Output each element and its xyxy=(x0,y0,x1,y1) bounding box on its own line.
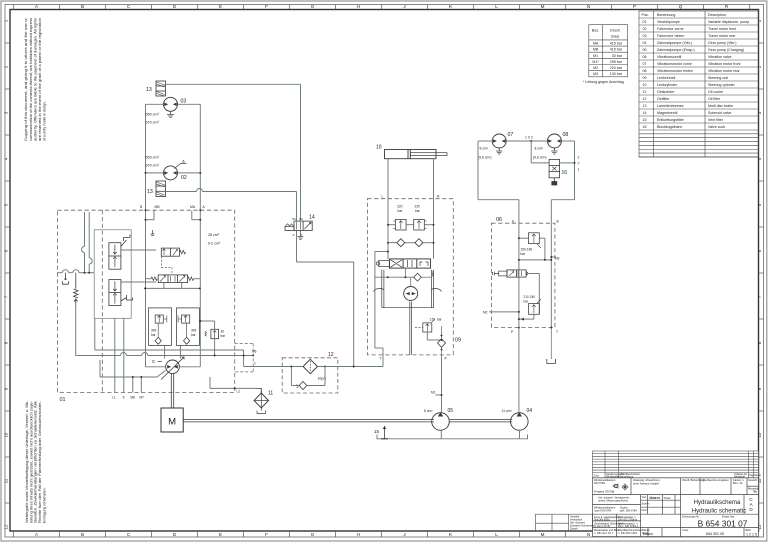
pilot valve lower pedal xyxy=(121,295,132,301)
steering 4/3 valve xyxy=(376,259,433,277)
wire brake13-top to valve14 xyxy=(166,84,301,221)
inner dashed partition xyxy=(101,210,103,392)
svg-text:08: 08 xyxy=(643,69,647,73)
svg-text:8 cm³: 8 cm³ xyxy=(535,147,544,151)
svg-text:are reserved in the event of t: are reserved in the event of the grant o… xyxy=(38,18,42,141)
svg-text:12: 12 xyxy=(4,524,9,529)
gear pump 05 (charging) xyxy=(432,412,450,430)
port labels B MB MA A xyxy=(140,205,206,209)
svg-text:Stuehr: Stuehr xyxy=(642,502,650,506)
svg-text:13: 13 xyxy=(146,87,152,93)
svg-text:09: 09 xyxy=(643,76,647,80)
check valves row xyxy=(387,239,435,247)
svg-text:DIN ISO 2768-m: DIN ISO 2768-m xyxy=(618,517,637,521)
wire case line 2 (to M6) xyxy=(76,305,255,357)
svg-text:nach DIN 6784: nach DIN 6784 xyxy=(594,509,612,513)
svg-text:unters. Muster geschuetzt: unters. Muster geschuetzt xyxy=(598,499,628,503)
svg-text:G: G xyxy=(311,532,315,537)
lever symbol xyxy=(62,273,68,285)
pilot valve upper pedal xyxy=(121,235,130,247)
svg-text:Vibrationsventil: Vibrationsventil xyxy=(657,55,682,59)
motor 07 drain xyxy=(496,148,502,154)
valve 14 port labels xyxy=(293,217,304,237)
wire to valve 16 xyxy=(531,141,575,164)
svg-text:geh. DIN 6784: geh. DIN 6784 xyxy=(620,509,637,513)
wire motor 03 cross xyxy=(146,103,201,105)
pilot outputs to main valve xyxy=(121,250,156,282)
port MB stub xyxy=(145,209,155,221)
svg-text:30 bar: 30 bar xyxy=(612,54,623,58)
svg-text:Zahnradpumpe (Einsp.): Zahnradpumpe (Einsp.) xyxy=(657,48,695,52)
lower bus under 4/3 valve xyxy=(144,283,201,290)
svg-text:220 bar: 220 bar xyxy=(610,66,623,70)
svg-text:1: 1 xyxy=(578,168,580,172)
wire L2 xyxy=(210,377,261,393)
svg-text:Hydraulic schematic: Hydraulic schematic xyxy=(692,507,747,514)
wire drain line M8 M7 xyxy=(100,360,166,393)
steering unit 09 enclosure (dashed) xyxy=(367,199,453,355)
valve 14 tank drain xyxy=(297,230,303,239)
svg-text:M6: M6 xyxy=(252,350,257,354)
block 06 mid bus xyxy=(518,259,552,261)
spring return symbol xyxy=(74,273,78,305)
vibration motor 07 xyxy=(492,134,506,148)
svg-text:Oelkuehler: Oelkuehler xyxy=(657,90,675,94)
engine shaft to gear pumps xyxy=(183,420,512,422)
svg-text:B: B xyxy=(81,4,84,9)
svg-text:Vibration motor rear: Vibration motor rear xyxy=(708,69,740,73)
M2 line xyxy=(489,311,520,313)
svg-text:T: T xyxy=(254,362,256,366)
svg-text:Urspr.: Urspr. xyxy=(682,528,689,532)
steering inner left line xyxy=(375,251,389,367)
svg-text:10: 10 xyxy=(757,432,762,437)
svg-text:M1: M1 xyxy=(431,391,436,395)
wire valve14 drain to filter line xyxy=(297,230,355,367)
copyright note (english, rotated) xyxy=(24,17,46,141)
motor 03 drain xyxy=(167,111,174,117)
svg-text:1 X 2: 1 X 2 xyxy=(525,135,533,139)
vibration valve 06 enclosure (dashed) xyxy=(491,223,555,327)
svg-text:16: 16 xyxy=(562,170,568,176)
feedback channel xyxy=(374,270,442,308)
svg-text:11: 11 xyxy=(4,478,9,483)
suction tank line xyxy=(377,430,528,439)
pressure table xyxy=(589,25,628,77)
relief outputs to pump xyxy=(165,345,181,358)
svg-text:Q: Q xyxy=(679,4,683,9)
svg-text:Travel motor front: Travel motor front xyxy=(708,27,736,31)
svg-text:28 cm³: 28 cm³ xyxy=(208,233,220,237)
filter element xyxy=(303,359,317,373)
wire motors loop left xyxy=(478,141,519,223)
svg-text:11 cm³: 11 cm³ xyxy=(502,409,513,413)
svg-text:11: 11 xyxy=(643,90,647,94)
svg-text:08: 08 xyxy=(563,132,569,138)
svg-text:L2: L2 xyxy=(237,389,241,393)
svg-text:N: N xyxy=(587,4,590,9)
svg-text:670 cm³: 670 cm³ xyxy=(146,121,160,125)
svg-text:01.02.99: 01.02.99 xyxy=(649,496,661,500)
wire brake13-bottom to valve14 xyxy=(166,189,297,222)
block 06 tank xyxy=(547,327,556,364)
svg-text:communication of the contents: communication of the contents thereof, a… xyxy=(29,18,33,141)
drain mark xyxy=(151,230,155,236)
relief 30bar wires xyxy=(199,320,214,356)
svg-text:Blockkugelhahn: Blockkugelhahn xyxy=(657,125,682,129)
M1 stub xyxy=(436,394,443,396)
svg-text:550 cm³: 550 cm³ xyxy=(146,113,160,117)
svg-text:Zweck: Zweck xyxy=(570,527,578,531)
svg-text:13: 13 xyxy=(643,104,647,108)
svg-text:Lenkzylinder: Lenkzylinder xyxy=(657,83,678,87)
svg-text:Gear pump (Charging): Gear pump (Charging) xyxy=(708,48,744,52)
steering L R internal lines xyxy=(388,199,434,259)
vibration motor 08 xyxy=(547,134,561,148)
pump unit 01 enclosure (dashed) xyxy=(57,210,234,392)
copyright note (german, rotated) xyxy=(25,401,46,523)
svg-text:Fahrmotor hinten: Fahrmotor hinten xyxy=(657,34,684,38)
left coordinate numbers xyxy=(4,19,9,529)
svg-text:F: F xyxy=(265,532,268,537)
wire case line 1 xyxy=(95,318,244,366)
pilot control sub-box xyxy=(94,230,131,318)
svg-text:Multi disc brake: Multi disc brake xyxy=(708,104,733,108)
svg-text:J: J xyxy=(403,4,405,9)
svg-text:M2: M2 xyxy=(593,66,598,70)
vent filter 15 xyxy=(381,426,388,439)
wire travel line A (right vertical) xyxy=(199,104,201,367)
svg-text:654 301 05: 654 301 05 xyxy=(706,532,724,536)
title block background xyxy=(593,451,759,537)
svg-text:Theis: Theis xyxy=(664,496,672,500)
svg-text:M: M xyxy=(541,532,545,537)
svg-text:Gear pump (Vibr.): Gear pump (Vibr.) xyxy=(708,41,737,45)
svg-text:03: 03 xyxy=(643,34,647,38)
cylinder port wires xyxy=(388,159,434,199)
svg-text:130 bar: 130 bar xyxy=(610,72,623,76)
pump port connections xyxy=(146,366,201,368)
svg-text:8 cm³: 8 cm³ xyxy=(424,409,433,413)
title block main grid xyxy=(593,478,759,537)
travel motor 03 xyxy=(164,97,178,111)
svg-text:06: 06 xyxy=(496,217,502,223)
svg-text:Druck: Druck xyxy=(610,29,620,33)
svg-text:Copying of this document, and: Copying of this document, and giving it … xyxy=(24,17,28,141)
motor 08 drain xyxy=(551,148,557,154)
svg-text:04: 04 xyxy=(527,408,533,414)
svg-text:15: 15 xyxy=(643,118,647,122)
wire filter12 in/out xyxy=(282,366,383,368)
svg-text:Vibration motor front: Vibration motor front xyxy=(708,62,741,66)
pilot bus horizontal xyxy=(57,270,94,274)
svg-text:15: 15 xyxy=(374,429,380,434)
pilot valve lower xyxy=(109,280,121,306)
svg-text:MA: MA xyxy=(190,205,196,209)
svg-text:E: E xyxy=(219,4,222,9)
bottom coordinate ticks xyxy=(14,531,566,537)
svg-text:Travel motor rear: Travel motor rear xyxy=(708,34,736,38)
relief cartridge left (345 bar) xyxy=(149,308,172,346)
svg-text:Bez.: Bez. xyxy=(592,29,600,33)
svg-text:12: 12 xyxy=(328,352,334,358)
svg-text:M: M xyxy=(168,416,176,427)
svg-text:B 654 301 07: B 654 301 07 xyxy=(698,519,748,529)
svg-text:MB: MB xyxy=(155,205,161,209)
bottom coordinate letters xyxy=(35,532,590,537)
svg-text:07: 07 xyxy=(508,132,514,138)
svg-text:Eintragung vorbehalten.: Eintragung vorbehalten. xyxy=(42,487,46,523)
pump control 3/2 valve xyxy=(161,248,179,256)
svg-text:(9,6 cm³): (9,6 cm³) xyxy=(533,156,547,160)
relief valve 30 bar xyxy=(211,329,219,338)
svg-text:M3: M3 xyxy=(593,72,598,76)
svg-text:N: N xyxy=(587,532,590,537)
svg-text:Description: Description xyxy=(708,13,726,17)
pump shaft xyxy=(171,374,173,408)
left attachment table text xyxy=(570,515,597,531)
svg-text:01: 01 xyxy=(643,20,647,24)
svg-text:11: 11 xyxy=(268,391,273,397)
solenoid valve 14 xyxy=(285,221,312,230)
svg-text:Vibration valve: Vibration valve xyxy=(708,55,732,59)
projection symbols xyxy=(613,484,629,491)
svg-text:Verstellpumpe: Verstellpumpe xyxy=(657,20,680,24)
pump 04 pressure line xyxy=(518,327,520,413)
valve cock 16 xyxy=(549,159,560,185)
svg-text:B: B xyxy=(557,219,559,223)
svg-text:Hydraulikschema: Hydraulikschema xyxy=(694,499,741,506)
svg-text:P: P xyxy=(633,4,636,9)
svg-text:8 cm³: 8 cm³ xyxy=(480,147,489,151)
svg-text:MA: MA xyxy=(593,42,599,46)
svg-text:n. DIN ISO 1302: n. DIN ISO 1302 xyxy=(618,531,638,535)
svg-text:M7: M7 xyxy=(140,396,145,400)
svg-text:ohne Toleranz-Angabe: ohne Toleranz-Angabe xyxy=(633,482,660,486)
parts list text xyxy=(642,13,750,129)
pump control 4/3 valve xyxy=(158,275,187,283)
steering cylinder 10 xyxy=(385,150,448,159)
svg-text:M8: M8 xyxy=(131,396,136,400)
port MA stub xyxy=(192,209,202,221)
svg-text:L: L xyxy=(495,532,498,537)
left attachment table xyxy=(536,514,593,531)
labels 2 Y 1 xyxy=(578,155,581,171)
steering relief 220bar right xyxy=(414,219,427,230)
svg-text:Bem. DIN 6784-1: Bem. DIN 6784-1 xyxy=(618,524,639,528)
svg-text:Oberflaechen-Angaben: Oberflaechen-Angaben xyxy=(702,478,729,482)
svg-text:12: 12 xyxy=(643,97,647,101)
svg-text:of a utility model or design.: of a utility model or design. xyxy=(43,101,47,141)
svg-text:Datum: Datum xyxy=(643,532,653,536)
steering relief 175 bar xyxy=(423,319,435,332)
svg-text:07: 07 xyxy=(643,62,647,66)
relief 150 wires xyxy=(518,237,545,260)
svg-text:Pos.: Pos. xyxy=(642,13,649,17)
svg-text:16: 16 xyxy=(643,125,647,129)
svg-text:T: T xyxy=(380,357,382,361)
brake 13 (top, travel motor rear) xyxy=(156,81,166,96)
svg-text:1 2 1 5: 1 2 1 5 xyxy=(746,532,757,536)
relief cross connections xyxy=(387,224,435,226)
svg-text:B1: B1 xyxy=(293,217,297,221)
title block small texts xyxy=(594,478,760,535)
svg-text:G: G xyxy=(311,4,315,9)
svg-text:01: 01 xyxy=(60,397,66,403)
wire motor 07-08 link xyxy=(506,140,547,142)
svg-text:04: 04 xyxy=(643,41,647,45)
block 06 relief 150-180 bar xyxy=(529,233,541,248)
svg-text:Zahnradpumpe (Vibr.): Zahnradpumpe (Vibr.) xyxy=(657,41,692,45)
pilot feed wavy verticals xyxy=(82,212,93,273)
svg-text:10: 10 xyxy=(376,145,382,151)
svg-text:Magnetventil: Magnetventil xyxy=(657,111,678,115)
svg-text:Vibrationsmotor vorne: Vibrationsmotor vorne xyxy=(657,62,692,66)
dashed stub box at M6/T xyxy=(235,344,254,372)
svg-text:%: % xyxy=(753,489,757,494)
wire motor 02 cross xyxy=(145,172,202,174)
svg-text:(9,6 cm³): (9,6 cm³) xyxy=(478,156,492,160)
svg-text:DIN 6784: DIN 6784 xyxy=(594,481,606,485)
wire motors loop right xyxy=(551,141,574,223)
svg-text:295 bar: 295 bar xyxy=(610,60,623,64)
svg-text:authority. Offenders are liabl: authority. Offenders are liable to the p… xyxy=(33,18,37,141)
svg-text:13: 13 xyxy=(147,189,153,195)
svg-text:550 cm³: 550 cm³ xyxy=(146,156,160,160)
svg-text:MB: MB xyxy=(593,48,599,52)
svg-text:M2: M2 xyxy=(483,311,488,315)
svg-text:L: L xyxy=(382,195,384,199)
motor 02 drain xyxy=(175,161,187,169)
svg-text:S: S xyxy=(123,396,125,400)
svg-text:Lamellenbremse: Lamellenbremse xyxy=(657,104,684,108)
relief 175 wires xyxy=(415,327,443,341)
gerotor metering unit xyxy=(375,268,432,300)
svg-text:Fahrmotor vorne: Fahrmotor vorne xyxy=(657,27,684,31)
svg-text:Vibrationsmotor hinten: Vibrationsmotor hinten xyxy=(657,69,693,73)
travel motor 02 xyxy=(164,166,178,180)
svg-text:T: T xyxy=(556,330,558,334)
svg-text:10: 10 xyxy=(4,432,9,437)
gerotor drain shaft xyxy=(410,302,412,355)
oil filter 12 (dashed box) xyxy=(282,358,338,393)
solenoid valve wires xyxy=(528,274,540,315)
pilot valve upper xyxy=(109,243,121,270)
svg-text:09: 09 xyxy=(455,338,461,344)
right coordinate ticks xyxy=(759,43,764,503)
svg-text:0-2 cm³: 0-2 cm³ xyxy=(208,242,221,246)
svg-text:Solenoid valve: Solenoid valve xyxy=(708,111,731,115)
gear pump 04 (vibration) xyxy=(511,412,529,430)
svg-text:Steering unit: Steering unit xyxy=(708,76,728,80)
block 06 solenoid valve xyxy=(493,270,528,277)
gerotor check valve xyxy=(414,273,422,281)
svg-text:H: H xyxy=(357,4,360,9)
svg-text:Name: Name xyxy=(754,473,761,477)
svg-text:670 cm³: 670 cm³ xyxy=(146,164,160,168)
wire travel line B (left vertical) xyxy=(145,104,147,367)
svg-text:05: 05 xyxy=(448,408,454,414)
svg-text:n. Norm W 45: n. Norm W 45 xyxy=(594,524,611,528)
svg-text:M1: M1 xyxy=(593,54,598,58)
3/2 valve pilot dashes xyxy=(161,256,172,275)
svg-text:B2: B2 xyxy=(300,217,304,221)
block 06 relief 210-240 bar xyxy=(529,299,541,314)
svg-text:415 bar: 415 bar xyxy=(610,48,623,52)
svg-text:Oelfilter: Oelfilter xyxy=(657,97,670,101)
svg-text:06: 06 xyxy=(643,55,647,59)
svg-text:Vent filter: Vent filter xyxy=(708,118,724,122)
svg-text:F: F xyxy=(265,4,268,9)
svg-text:M: M xyxy=(541,4,545,9)
pressure table text xyxy=(592,29,623,77)
top coordinate ticks xyxy=(14,5,750,10)
title block revision table xyxy=(593,451,759,478)
wires L1 S xyxy=(115,318,124,392)
relief 210 drain xyxy=(518,314,534,320)
svg-text:05: 05 xyxy=(643,48,647,52)
M3 stub xyxy=(550,256,556,258)
engine M box xyxy=(161,408,183,432)
steering P check valve xyxy=(438,326,446,355)
left coordinate ticks xyxy=(5,43,10,503)
parts list table xyxy=(639,11,759,157)
pump 05 pressure line xyxy=(441,355,443,413)
oil cooler 11 xyxy=(254,388,269,408)
svg-text:A: A xyxy=(293,233,295,237)
svg-text:Lenkeinheit: Lenkeinheit xyxy=(657,76,675,80)
svg-text:L: L xyxy=(495,4,498,9)
filter bypass xyxy=(290,366,326,390)
svg-text:L1: L1 xyxy=(112,396,116,400)
svg-text:14: 14 xyxy=(643,111,647,115)
svg-text:B: B xyxy=(81,532,84,537)
svg-text:Vorl.: Vorl. xyxy=(642,495,647,499)
svg-text:Rechte fuer den Fall der Paten: Rechte fuer den Fall der Patenterteilung… xyxy=(38,401,42,523)
cooler tank xyxy=(257,408,266,414)
4/3 valve connects xyxy=(146,278,201,280)
svg-text:(max): (max) xyxy=(611,35,619,39)
svg-text:Steering cylinder: Steering cylinder xyxy=(708,83,736,87)
svg-text:02: 02 xyxy=(643,27,647,31)
svg-text:* Leitung gegen Anschlag: * Leitung gegen Anschlag xyxy=(583,80,624,84)
svg-text:Variable displacem. pump: Variable displacem. pump xyxy=(708,20,749,24)
svg-text:Entlueftungsfilter: Entlueftungsfilter xyxy=(657,118,685,122)
svg-text:415 bar: 415 bar xyxy=(610,42,623,46)
variable displacement pump 01 xyxy=(161,357,184,380)
svg-text:Weitergabe sowie Vervielfaelti: Weitergabe sowie Vervielfaeltigung diese… xyxy=(25,401,29,523)
svg-text:Freigabe GS/TdB: Freigabe GS/TdB xyxy=(594,490,614,494)
svg-text:Oil filter: Oil filter xyxy=(708,97,721,101)
svg-text:H: H xyxy=(357,532,360,537)
svg-text:175: 175 xyxy=(430,318,436,322)
svg-text:14: 14 xyxy=(309,215,315,221)
svg-text:03: 03 xyxy=(181,99,187,105)
steering relief 220bar left xyxy=(393,219,406,230)
svg-text:Norm.: Norm. xyxy=(642,508,649,512)
brake 13 (bottom, travel motor front) xyxy=(156,181,166,197)
svg-text:E: E xyxy=(219,532,222,537)
svg-text:10: 10 xyxy=(643,83,647,87)
svg-text:J: J xyxy=(403,532,405,537)
svg-text:Benennung: Benennung xyxy=(657,13,675,17)
block 06 internal verticals xyxy=(519,223,551,327)
svg-text:Valve cock: Valve cock xyxy=(708,125,725,129)
svg-text:2: 2 xyxy=(578,155,580,159)
svg-text:Teil DIN 6935: Teil DIN 6935 xyxy=(594,517,610,521)
right coordinate numbers xyxy=(757,19,762,529)
svg-text:Oil cooler: Oil cooler xyxy=(708,90,724,94)
